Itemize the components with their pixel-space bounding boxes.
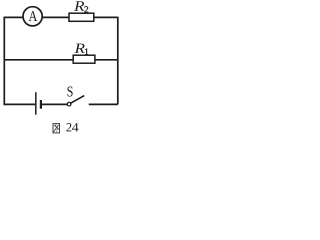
wire middle row right [95, 59, 118, 61]
wire top-left segment [4, 16, 24, 18]
wire right vertical [117, 17, 119, 105]
wire middle row left [4, 59, 73, 61]
wire switch to bottom-right corner [89, 103, 118, 105]
switch S label [68, 86, 73, 96]
battery long plate (positive) [35, 92, 37, 115]
ammeter A1 label A [29, 11, 38, 21]
battery short plate (negative) [40, 100, 42, 109]
resistor R1 label subscript 1 [85, 49, 88, 55]
caption glyph 图 box [53, 124, 60, 133]
wire left vertical [3, 17, 5, 106]
resistor R1 value label [75, 44, 85, 53]
wire R2 to top-right corner [94, 16, 117, 18]
resistor R2 value label [74, 1, 84, 10]
caption glyph 图 inner strokes [54, 124, 56, 127]
wire ammeter to R2 [42, 16, 69, 18]
switch S contact circle [67, 102, 71, 106]
resistor R1 body [73, 55, 95, 63]
resistor R2 body [69, 13, 94, 21]
switch S lever arm [71, 96, 85, 104]
caption digit 2 [66, 123, 71, 131]
ammeter A1 circle [23, 7, 42, 26]
wire bottom left to battery [4, 103, 35, 105]
caption digit 4 [72, 123, 78, 131]
wire battery to switch [42, 103, 68, 105]
resistor R2 label subscript 2 [84, 6, 88, 12]
